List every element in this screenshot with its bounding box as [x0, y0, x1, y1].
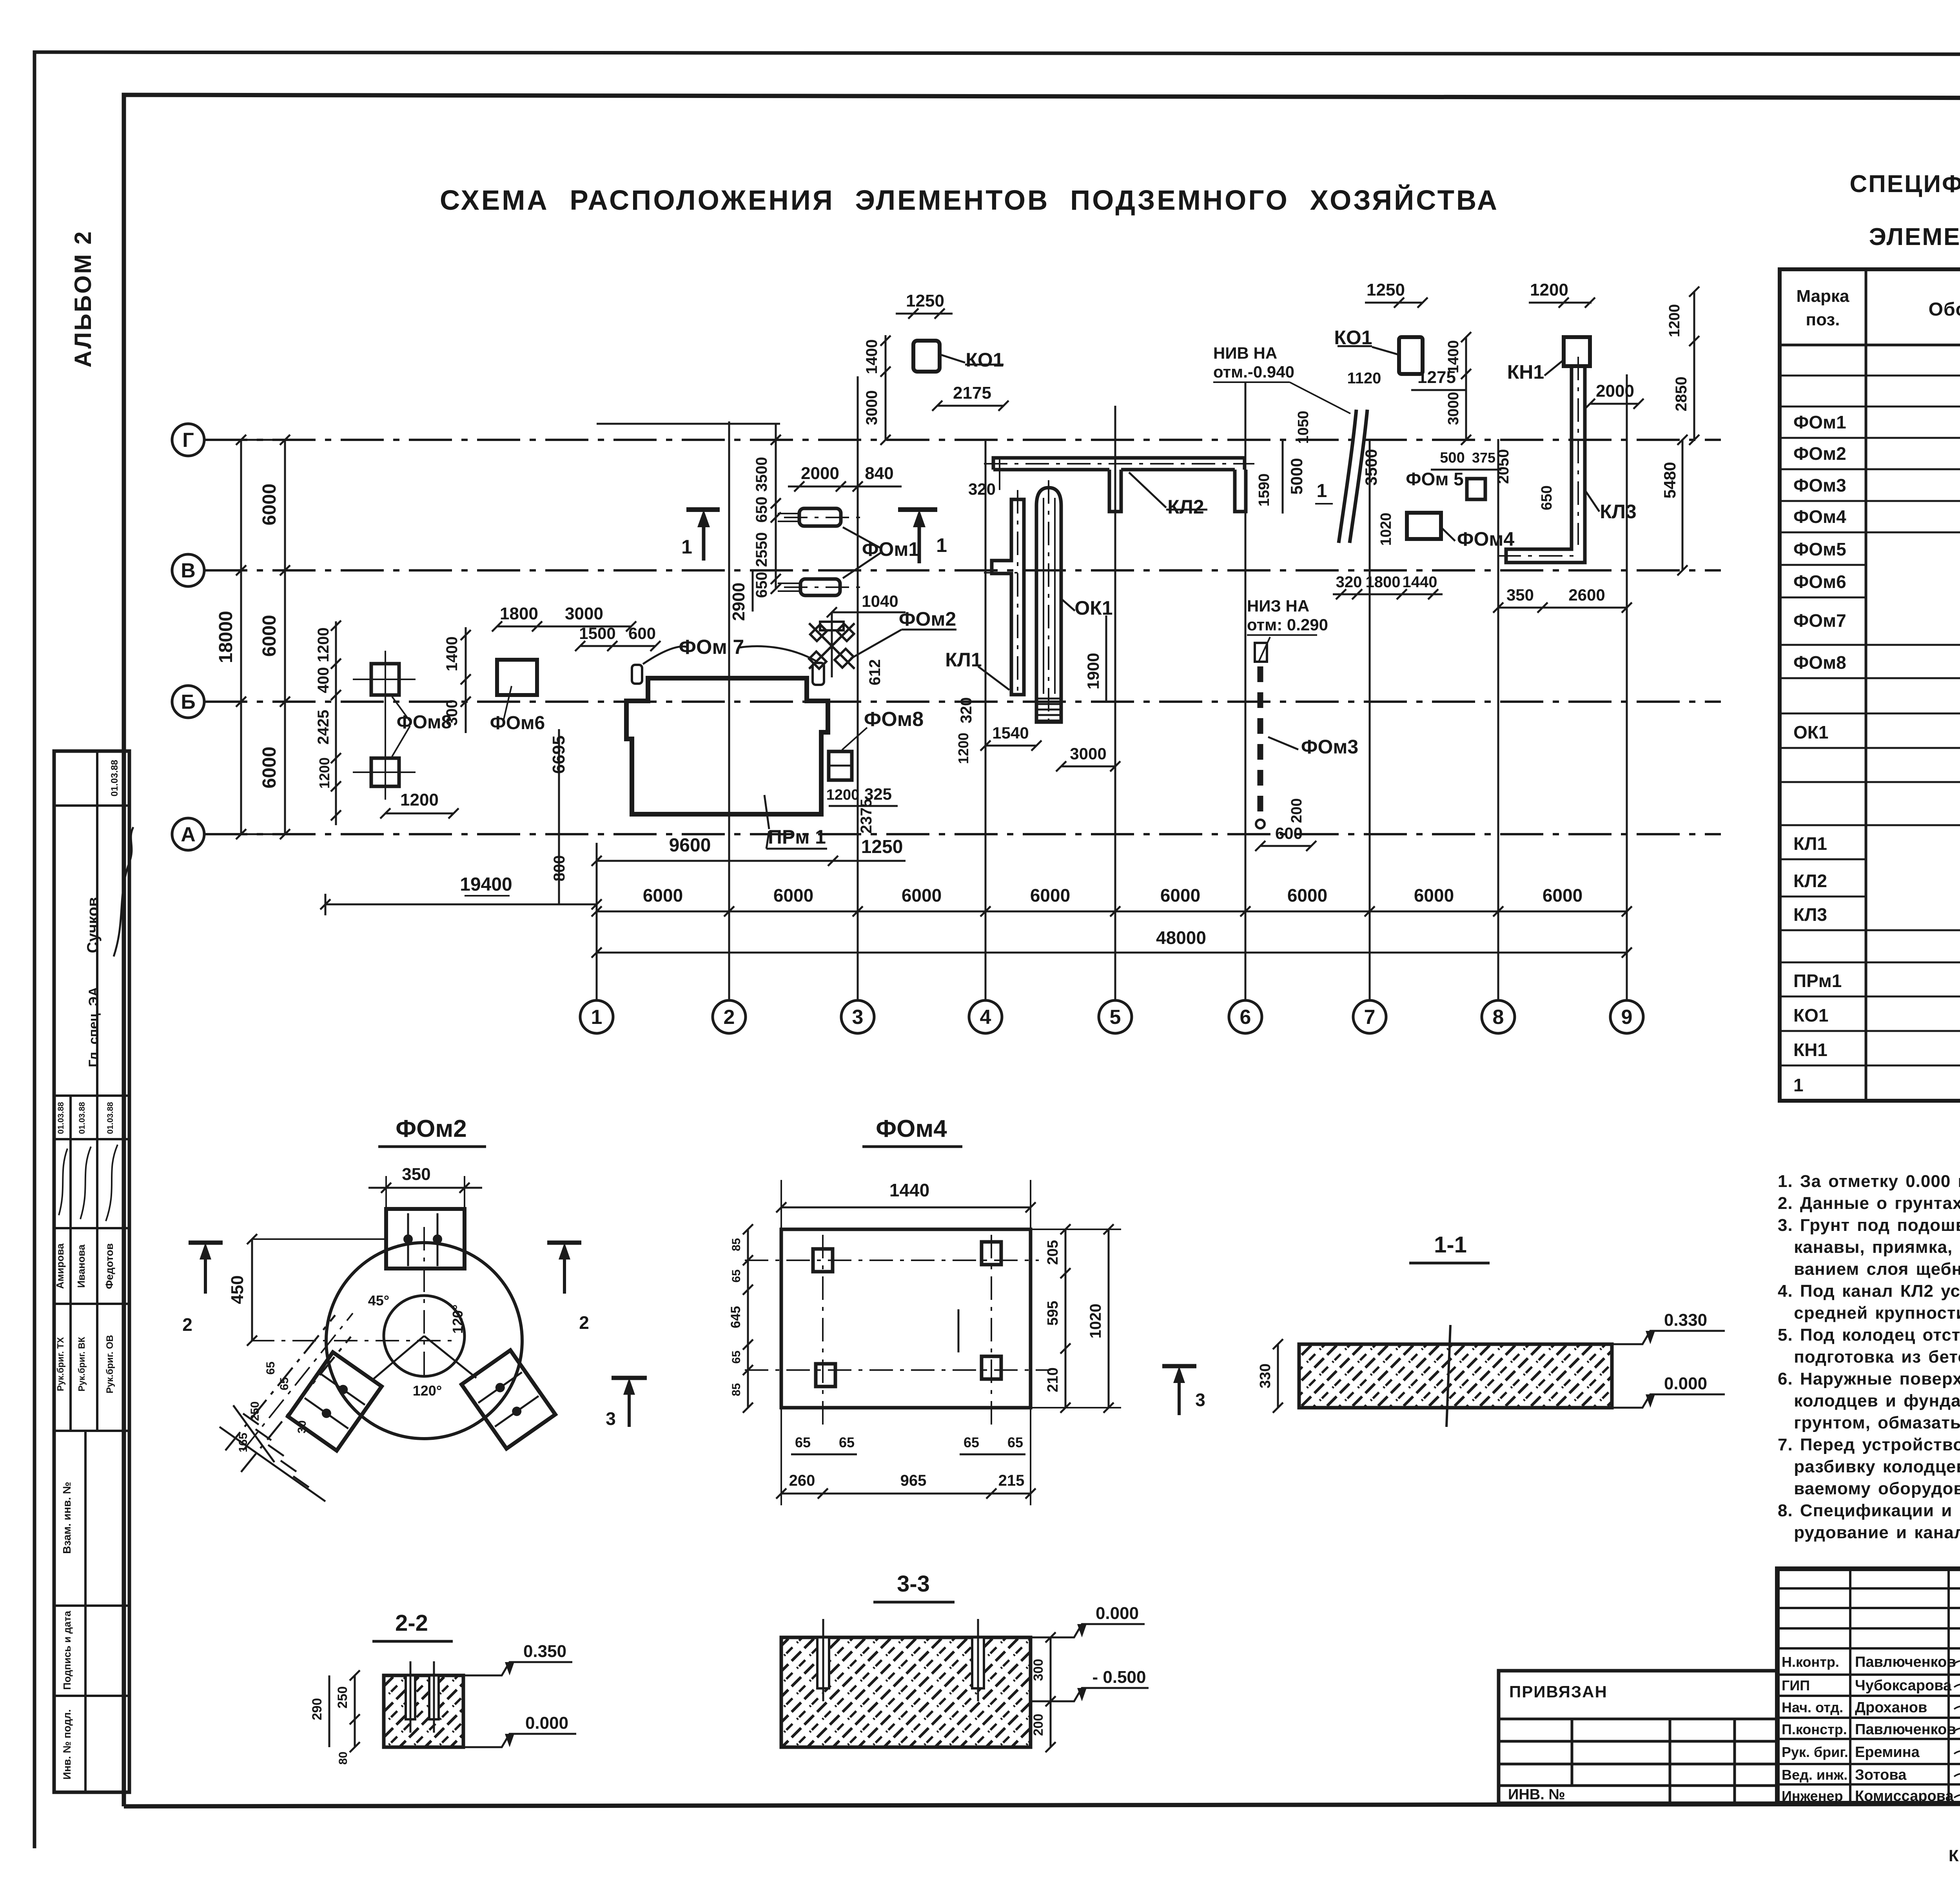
svg-text:120°: 120°: [450, 1305, 466, 1334]
svg-text:Чубоксарова: Чубоксарова: [1855, 1677, 1952, 1694]
ФОм4 right dims 205/595/210/1020: [1065, 1229, 1067, 1408]
svg-text:2375: 2375: [858, 799, 875, 834]
svg-text:рудование и каналы даны на лис: рудование и каналы даны на листе КЖ-24.: [1778, 1523, 1960, 1542]
ФОм2 diagonal dim ticks: [225, 1315, 351, 1487]
svg-text:645: 645: [728, 1306, 743, 1328]
svg-text:ПРм 1: ПРм 1: [768, 826, 826, 848]
svg-text:ФОм7: ФОм7: [1793, 610, 1846, 631]
svg-text:Н.контр.: Н.контр.: [1782, 1654, 1839, 1670]
section 2-2 anchor slots: [406, 1675, 415, 1719]
svg-text:Рук. бриг.: Рук. бриг.: [1782, 1744, 1848, 1760]
svg-text:ваемому оборудованию.: ваемому оборудованию.: [1778, 1479, 1960, 1498]
svg-text:350: 350: [1506, 586, 1534, 604]
svg-text:Нач. отд.: Нач. отд.: [1782, 1699, 1843, 1715]
section 1-1 hatched slab: [1299, 1344, 1612, 1408]
svg-text:1800: 1800: [500, 604, 538, 623]
ФОм4 anchor squares: [813, 1249, 833, 1272]
left dimension chain 18000: [240, 440, 242, 834]
svg-text:6000: 6000: [259, 615, 280, 657]
svg-text:5000: 5000: [1287, 458, 1306, 494]
ФОм2 main circle: [326, 1243, 522, 1439]
svg-text:30: 30: [296, 1420, 309, 1433]
dims ФОм5: [1431, 469, 1501, 471]
title block: [1777, 1569, 1960, 1803]
svg-text:Зотова: Зотова: [1855, 1767, 1907, 1783]
svg-text:1250: 1250: [861, 837, 903, 857]
svg-text:965: 965: [900, 1472, 927, 1489]
svg-text:80: 80: [337, 1751, 350, 1764]
svg-text:2175: 2175: [953, 383, 991, 403]
sump КО1 (left instance): [913, 341, 940, 372]
ФОм4 main slab: [781, 1229, 1031, 1408]
svg-text:отм: 0.290: отм: 0.290: [1247, 615, 1328, 634]
svg-text:2900: 2900: [729, 583, 748, 621]
svg-text:01.03.88: 01.03.88: [106, 1102, 115, 1134]
svg-text:48000: 48000: [1156, 927, 1206, 948]
pit ПРм1 building outline: [626, 678, 828, 814]
svg-text:Рук.бриг. ТХ: Рук.бриг. ТХ: [55, 1337, 65, 1391]
svg-text:0.330: 0.330: [1664, 1310, 1707, 1330]
svg-text:65: 65: [730, 1269, 743, 1282]
svg-text:Марка: Марка: [1796, 287, 1849, 306]
svg-text:330: 330: [1257, 1363, 1274, 1388]
svg-text:ФОм4: ФОм4: [1457, 528, 1515, 550]
left side stamp strip: [54, 751, 129, 1792]
svg-text:Амирова: Амирова: [54, 1243, 66, 1289]
svg-text:1400: 1400: [863, 339, 880, 374]
foundation ФОм6 rect: [497, 660, 537, 695]
vertical dim chain x1979 (3500/650/2550/650): [775, 424, 777, 589]
svg-text:6695: 6695: [549, 735, 568, 774]
svg-text:2: 2: [579, 1312, 589, 1333]
svg-text:1440: 1440: [889, 1180, 929, 1200]
svg-text:650: 650: [753, 572, 770, 598]
dim 320/1800/1440: [1333, 593, 1443, 595]
ФОм2 centre lines: [423, 1227, 425, 1380]
svg-text:612: 612: [866, 659, 884, 686]
svg-text:5: 5: [1110, 1006, 1121, 1029]
svg-text:65: 65: [839, 1434, 855, 1450]
svg-text:КЛ3: КЛ3: [1600, 501, 1636, 523]
svg-text:260: 260: [789, 1472, 815, 1489]
svg-text:7: 7: [1364, 1006, 1376, 1029]
dim line 1590 (near col5): [1282, 440, 1284, 514]
neutralizer well КН1: [1564, 337, 1590, 366]
svg-text:Взам. инв. №: Взам. инв. №: [61, 1482, 73, 1554]
svg-text:3: 3: [852, 1006, 864, 1029]
svg-text:1120: 1120: [1347, 370, 1381, 387]
svg-text:ЭЛЕМЕНТОВ ПОДЗЕМНОГО ХОЗЯЙСТВА: ЭЛЕМЕНТОВ ПОДЗЕМНОГО ХОЗЯЙСТВА: [1869, 223, 1960, 250]
section 3-3 hatched block: [781, 1637, 1031, 1747]
column line 3: [857, 376, 859, 1000]
svg-text:отм.-0.940: отм.-0.940: [1213, 363, 1294, 381]
svg-text:0.350: 0.350: [523, 1642, 566, 1661]
svg-text:320: 320: [968, 480, 996, 498]
svg-text:7. Перед устройством фундамент: 7. Перед устройством фундаментов под обо…: [1778, 1435, 1960, 1454]
dim 1200/325: [829, 805, 898, 807]
svg-text:9600: 9600: [669, 835, 711, 856]
svg-text:1250: 1250: [1367, 280, 1405, 299]
foundation ФОм1 upper slab: [799, 508, 841, 526]
svg-text:Рук.бриг. ОВ: Рук.бриг. ОВ: [105, 1335, 115, 1393]
ФОм4 bottom dims 260/965/215: [781, 1493, 1031, 1495]
dims near second КО1: [1365, 302, 1423, 304]
column line 2: [728, 421, 730, 1000]
svg-text:ванием слоя щебня.: ванием слоя щебня.: [1778, 1260, 1960, 1279]
svg-text:375: 375: [1472, 450, 1495, 466]
dim 1200 below left pair: [385, 813, 454, 815]
svg-text:6000: 6000: [259, 484, 280, 526]
svg-text:ОК1: ОК1: [1793, 722, 1828, 742]
svg-text:Б: Б: [181, 691, 195, 713]
svg-text:ПРм1: ПРм1: [1793, 971, 1842, 991]
svg-text:1500: 1500: [579, 624, 615, 642]
section 2-2 level 0.000: [463, 1734, 576, 1747]
svg-text:4: 4: [980, 1006, 991, 1029]
svg-text:КЛ2: КЛ2: [1167, 496, 1204, 518]
svg-text:3: 3: [606, 1408, 616, 1429]
svg-text:П.констр.: П.констр.: [1782, 1721, 1847, 1737]
svg-text:1200: 1200: [400, 790, 439, 809]
dim 1800/3000: [497, 626, 631, 628]
svg-text:1200: 1200: [1530, 280, 1568, 299]
sump КО1 (second instance): [1399, 337, 1423, 374]
foundation ФОм4 (plan): [1407, 513, 1441, 539]
section 1-1 break line: [1446, 1325, 1450, 1427]
svg-text:грунтом, обмазать горячим биту: грунтом, обмазать горячим битумом за 2 р…: [1778, 1413, 1960, 1432]
svg-text:КН1: КН1: [1507, 361, 1544, 383]
svg-text:320: 320: [958, 697, 975, 724]
svg-text:КО1: КО1: [965, 349, 1004, 371]
svg-text:0.000: 0.000: [1096, 1604, 1139, 1623]
svg-text:65: 65: [730, 1350, 743, 1363]
svg-text:8: 8: [1493, 1006, 1504, 1029]
svg-text:ФОм8: ФОм8: [1793, 652, 1846, 673]
svg-text:ФОм6: ФОм6: [1793, 572, 1846, 592]
dim 9600/1250: [597, 860, 906, 862]
strip: signatures row: [59, 1145, 118, 1221]
svg-text:1: 1: [1317, 481, 1327, 501]
dim chain x1188 (1400/300): [465, 627, 467, 733]
ФОм2 lower-right anchor plate: [461, 1350, 555, 1448]
svg-text:1020: 1020: [1087, 1304, 1104, 1339]
svg-text:205: 205: [1045, 1240, 1061, 1265]
svg-text:1200: 1200: [955, 733, 971, 764]
svg-text:320: 320: [1336, 574, 1362, 591]
svg-text:200: 200: [1031, 1714, 1046, 1736]
column line 7: [1369, 439, 1371, 1000]
svg-text:1200: 1200: [315, 628, 332, 662]
svg-text:1040: 1040: [862, 592, 898, 610]
svg-text:КЛ3: КЛ3: [1793, 904, 1827, 925]
column line 6: [1245, 382, 1247, 1000]
svg-text:45°: 45°: [368, 1292, 389, 1309]
foundation ФОм1 lower slab: [800, 579, 840, 595]
svg-text:Вед. инж.: Вед. инж.: [1782, 1767, 1847, 1783]
svg-text:6000: 6000: [902, 885, 942, 906]
svg-text:2: 2: [182, 1314, 192, 1335]
svg-text:800: 800: [551, 855, 568, 882]
svg-text:6000: 6000: [1414, 885, 1454, 906]
column line 8: [1497, 439, 1499, 1000]
channel КЛ3: [1506, 366, 1585, 563]
svg-text:ГИП: ГИП: [1782, 1677, 1810, 1693]
svg-text:250: 250: [335, 1686, 350, 1709]
svg-text:ФОм1: ФОм1: [1793, 412, 1846, 432]
dims near КЛ3: [1590, 403, 1639, 405]
svg-text:9: 9: [1621, 1006, 1633, 1029]
ФОм2 inner circle: [384, 1296, 465, 1376]
svg-text:85: 85: [730, 1383, 743, 1396]
svg-text:6000: 6000: [1543, 885, 1583, 906]
svg-text:2000: 2000: [1596, 381, 1634, 401]
svg-text:разбивку колодцев для анкерных: разбивку колодцев для анкерных болтов ут…: [1778, 1457, 1960, 1476]
svg-text:210: 210: [1045, 1367, 1061, 1392]
svg-text:1900: 1900: [1084, 653, 1102, 689]
anchor chain ФОм3: [1255, 643, 1267, 662]
svg-text:2550: 2550: [753, 532, 770, 567]
svg-text:6000: 6000: [643, 885, 683, 906]
svg-text:65: 65: [795, 1434, 811, 1450]
ФОм2 section marks 2: [189, 1241, 223, 1245]
svg-text:165: 165: [237, 1433, 250, 1452]
svg-text:Обозначение: Обозначение: [1929, 299, 1960, 320]
svg-text:ФОм2: ФОм2: [899, 608, 956, 630]
svg-text:1540: 1540: [992, 724, 1029, 742]
svg-text:ФОм3: ФОм3: [1793, 475, 1846, 495]
svg-text:3000: 3000: [863, 390, 880, 425]
svg-text:8. Спецификации и ведомость ра: 8. Спецификации и ведомость расхода стал…: [1778, 1501, 1960, 1520]
svg-text:АЛЬБОМ 2: АЛЬБОМ 2: [70, 230, 96, 367]
ФОм2 diagonal dim line: [243, 1313, 353, 1450]
svg-text:Сучков: Сучков: [84, 897, 102, 953]
pipe item 1 (slanted): [1339, 410, 1367, 543]
svg-text:колодцев и фундаментов под обо: колодцев и фундаментов под оборудование,…: [1778, 1391, 1960, 1410]
svg-text:1: 1: [681, 536, 692, 558]
svg-text:Еремина: Еремина: [1855, 1744, 1920, 1760]
section 1-1 level 0.000: [1612, 1394, 1725, 1408]
dim 350/2600: [1498, 607, 1627, 609]
svg-text:400: 400: [315, 667, 332, 693]
channel КЛ1: [992, 499, 1024, 695]
section mark 1 (left): [686, 507, 720, 512]
svg-text:ФОм4: ФОм4: [1793, 506, 1846, 527]
svg-text:- 0.500: - 0.500: [1093, 1668, 1146, 1687]
svg-text:Павлюченков: Павлюченков: [1855, 1654, 1956, 1670]
svg-text:1: 1: [591, 1006, 603, 1029]
svg-text:65: 65: [264, 1361, 277, 1374]
svg-text:ИНВ. №: ИНВ. №: [1508, 1786, 1565, 1803]
svg-text:3000: 3000: [565, 604, 603, 623]
svg-text:НИВ НА: НИВ НА: [1213, 344, 1277, 362]
svg-text:подготовка из бетона класса В: подготовка из бетона класса В 3.5.: [1778, 1347, 1960, 1367]
svg-text:1050: 1050: [1295, 411, 1312, 444]
section 1-1 dim 330: [1277, 1344, 1279, 1408]
foundation ФОм8 right rect: [829, 751, 852, 780]
section 3-3 level -0.500: [1031, 1688, 1149, 1701]
section 3-3 right dims: [1050, 1637, 1052, 1747]
svg-text:1400: 1400: [1445, 340, 1462, 374]
svg-text:120°: 120°: [413, 1383, 442, 1399]
svg-text:Подпись и дата: Подпись и дата: [61, 1611, 73, 1690]
svg-text:6. Наружные поверхности канало: 6. Наружные поверхности каналов, приямка…: [1778, 1369, 1960, 1388]
svg-text:ФОм3: ФОм3: [1301, 736, 1358, 758]
inspection pit ОК1: [1036, 488, 1061, 722]
svg-text:18000: 18000: [216, 611, 236, 663]
bottom dimension row 48000: [597, 952, 1627, 954]
ФОм2 radius lines: [372, 1336, 476, 1380]
bottom dimension row 6000: [597, 911, 1627, 913]
svg-text:Инв. № подл.: Инв. № подл.: [61, 1709, 73, 1779]
svg-text:0.000: 0.000: [1664, 1374, 1707, 1393]
svg-text:85: 85: [730, 1238, 743, 1251]
ФОм4 centre lines: [745, 1260, 1039, 1261]
svg-text:Комиссарова: Комиссарова: [1855, 1788, 1954, 1804]
dim 2000/840: [788, 486, 902, 488]
axis А: [172, 818, 204, 850]
svg-text:Рук.бриг. ВК: Рук.бриг. ВК: [76, 1336, 87, 1391]
dimension 19400: [325, 894, 327, 915]
svg-text:В: В: [181, 559, 196, 582]
svg-text:поз.: поз.: [1806, 310, 1840, 329]
svg-text:3: 3: [1195, 1390, 1205, 1410]
svg-text:Гл. спец. ЭА: Гл. спец. ЭА: [86, 987, 101, 1067]
svg-text:ФОм5: ФОм5: [1793, 539, 1846, 559]
dim 1500/600: [580, 645, 655, 647]
svg-text:65: 65: [964, 1434, 979, 1450]
section 1-1 level 0.330: [1612, 1331, 1725, 1344]
svg-text:КЛ1: КЛ1: [1793, 833, 1827, 854]
svg-text:215: 215: [998, 1472, 1025, 1489]
svg-text:СПЕЦИФИКАЦИЯ К СХЕМЕ РАСПОЛОЖЕ: СПЕЦИФИКАЦИЯ К СХЕМЕ РАСПОЛОЖЕНИЯ: [1849, 171, 1960, 198]
svg-text:450: 450: [228, 1275, 247, 1304]
svg-text:01.03.88: 01.03.88: [109, 760, 120, 796]
svg-text:840: 840: [865, 464, 893, 483]
axis Г: [172, 424, 204, 456]
ФОм2 lower-left anchor plate: [288, 1352, 381, 1450]
svg-text:2000: 2000: [801, 464, 839, 483]
section 2-2 left dims: [354, 1675, 356, 1747]
left dimension chain 6000s: [284, 440, 286, 834]
dims near КН1: [1529, 302, 1592, 304]
svg-text:Федотов: Федотов: [103, 1243, 115, 1289]
rotated dims 6695 / 800 / 612: [558, 729, 560, 904]
svg-text:1200: 1200: [826, 787, 860, 803]
ФОм4 left dims: [747, 1229, 749, 1408]
top witness line over cols1-4: [597, 423, 780, 425]
foundation ФОм8 upper left rect: [371, 664, 399, 695]
svg-text:2850: 2850: [1673, 377, 1690, 412]
svg-text:Дроханов: Дроханов: [1855, 1699, 1927, 1716]
svg-text:500: 500: [1440, 450, 1465, 466]
svg-text:1. За отметку 0.000 принята от: 1. За отметку 0.000 принята отметка чист…: [1778, 1172, 1960, 1191]
plan symbol ФОм2 (crossed anchor plates): [809, 613, 855, 677]
svg-text:КО1: КО1: [1793, 1005, 1828, 1025]
svg-text:6000: 6000: [259, 747, 280, 789]
svg-text:НИЗ НА: НИЗ НА: [1247, 597, 1309, 615]
svg-text:1: 1: [936, 534, 947, 556]
svg-text:1200: 1200: [1666, 304, 1683, 338]
svg-text:ФОм2: ФОм2: [396, 1115, 467, 1142]
svg-text:2: 2: [724, 1006, 735, 1029]
svg-text:3-3: 3-3: [897, 1571, 930, 1597]
dims near left КО1: [896, 313, 953, 315]
svg-text:2600: 2600: [1568, 586, 1605, 604]
svg-text:5. Под колодец отстойный КО1 и: 5. Под колодец отстойный КО1 и колодец-н…: [1778, 1325, 1960, 1345]
svg-text:Павлюченков: Павлюченков: [1855, 1721, 1956, 1738]
svg-text:ФОм8: ФОм8: [864, 708, 924, 731]
svg-text:600: 600: [1275, 824, 1303, 842]
svg-text:5480: 5480: [1661, 462, 1679, 498]
svg-text:ФОм6: ФОм6: [490, 713, 545, 733]
ФОм4 bottom dims 65/65 pairs: [791, 1454, 857, 1456]
svg-text:595: 595: [1045, 1301, 1061, 1325]
svg-text:65: 65: [1007, 1434, 1023, 1450]
svg-text:650: 650: [1539, 485, 1555, 510]
axis Б: [172, 686, 204, 718]
column line 1: [596, 843, 598, 1000]
svg-text:1590: 1590: [1256, 474, 1272, 507]
svg-text:200: 200: [1289, 798, 1305, 823]
svg-text:ФОм4: ФОм4: [876, 1115, 947, 1142]
svg-text:канавы, приямка, каналов КЛ1,: канавы, приямка, каналов КЛ1, КЛ3 тщател…: [1778, 1238, 1960, 1257]
section 3-3 anchor slots: [817, 1637, 829, 1688]
axis В: [172, 554, 204, 586]
svg-text:0.000: 0.000: [525, 1713, 568, 1733]
svg-text:1250: 1250: [906, 291, 944, 310]
svg-text:2-2: 2-2: [395, 1610, 428, 1636]
channel КЛ2: [993, 458, 1246, 470]
foundation ФОм7 left stub: [632, 665, 642, 684]
svg-text:1: 1: [1793, 1075, 1804, 1095]
svg-text:2425: 2425: [315, 710, 332, 745]
привязан table: [1499, 1671, 1777, 1803]
svg-text:ФОм 5: ФОм 5: [1406, 469, 1463, 489]
svg-text:2. Данные о грунтах смотреть н: 2. Данные о грунтах смотреть на листах К…: [1778, 1194, 1960, 1213]
foundation ФОм8 lower left rect: [371, 758, 399, 786]
svg-text:350: 350: [402, 1165, 430, 1184]
svg-text:КН1: КН1: [1793, 1040, 1828, 1060]
svg-text:3. Грунт под подошвой фундамен: 3. Грунт под подошвой фундаментов под об…: [1778, 1216, 1960, 1235]
svg-text:1440: 1440: [1403, 574, 1437, 591]
svg-text:6000: 6000: [773, 885, 813, 906]
svg-text:3500: 3500: [753, 457, 770, 492]
svg-text:ФОм2: ФОм2: [1793, 443, 1846, 464]
column line 4: [985, 439, 987, 1000]
svg-text:КЛ1: КЛ1: [945, 649, 982, 671]
svg-text:1020: 1020: [1378, 513, 1394, 546]
dim line 5480: [1682, 440, 1684, 570]
svg-text:3500: 3500: [1362, 449, 1380, 485]
svg-text:3000: 3000: [1445, 392, 1462, 425]
svg-text:6000: 6000: [1030, 885, 1070, 906]
svg-text:6000: 6000: [1160, 885, 1200, 906]
svg-text:6000: 6000: [1287, 885, 1327, 906]
svg-text:1-1: 1-1: [1434, 1232, 1467, 1258]
svg-text:СХЕМА РАСПОЛОЖЕНИЯ ЭЛЕМЕНТОВ: СХЕМА РАСПОЛОЖЕНИЯ ЭЛЕМЕНТОВ ПОДЗЕМНОГО …: [440, 185, 1499, 216]
svg-text:средней крупности.: средней крупности.: [1778, 1303, 1960, 1323]
svg-text:2050: 2050: [1495, 449, 1512, 484]
column line 5: [1114, 406, 1116, 1000]
svg-text:290: 290: [310, 1698, 325, 1721]
svg-text:19400: 19400: [460, 874, 512, 895]
foundation ФОм7 right stub: [813, 663, 824, 685]
section 2-2 level 0.350: [463, 1662, 572, 1675]
svg-text:6: 6: [1240, 1006, 1251, 1029]
svg-text:300: 300: [443, 700, 461, 726]
ФОм4 dim 1440: [781, 1207, 1031, 1209]
svg-text:4. Под канал КЛ2 устраивается: 4. Под канал КЛ2 устраивается песчаная п…: [1778, 1281, 1960, 1301]
